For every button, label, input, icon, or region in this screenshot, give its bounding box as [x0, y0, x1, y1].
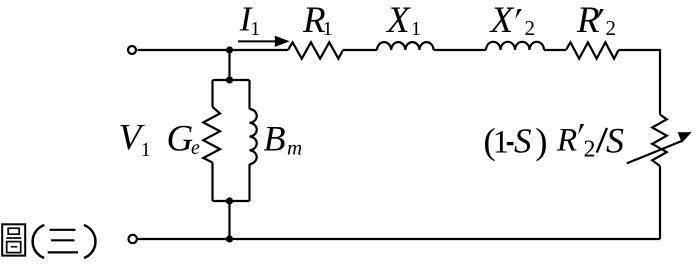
label I1: [239, 0, 260, 40]
svg-text:B: B: [264, 119, 286, 159]
resistor Ge: [203, 107, 220, 163]
wire shunt bottom stub: [228, 201, 230, 239]
wire R2' to top right corner and down: [619, 50, 661, 115]
wire left rail lower: [211, 163, 213, 202]
svg-text:1: 1: [493, 125, 510, 161]
caption open paren: [33, 225, 45, 258]
svg-text:2: 2: [584, 137, 596, 163]
caption close paren: [84, 225, 95, 258]
svg-text:): ): [535, 122, 547, 163]
inductor X2': [486, 42, 544, 50]
svg-text:G: G: [167, 119, 194, 160]
resistor R1: [288, 42, 343, 58]
wire left rail upper: [211, 80, 213, 107]
svg-text:2: 2: [525, 16, 536, 40]
terminal T1 (top left): [128, 46, 136, 54]
label (1-S)R2'/S: [483, 121, 624, 163]
svg-text:X: X: [385, 0, 411, 41]
label V1: [119, 118, 151, 161]
wire right rail upper: [248, 80, 250, 109]
node A (top junction): [226, 46, 233, 53]
svg-text:m: m: [287, 135, 302, 159]
node B (bottom junction): [226, 235, 233, 242]
label Ge: [167, 119, 201, 160]
wire bottom from corner to T2: [138, 238, 660, 240]
wire R1 to X1: [343, 49, 377, 51]
label X1: [385, 0, 421, 41]
svg-text:R: R: [556, 123, 577, 159]
label R2': [576, 0, 616, 41]
caption glyph 三: [48, 230, 78, 253]
wire top from T1 to R1: [138, 49, 289, 51]
svg-text:e: e: [191, 137, 200, 159]
caption glyph 圖: [2, 224, 25, 255]
svg-text:S: S: [606, 121, 624, 161]
inductor X1: [377, 42, 434, 50]
variable resistor RL zigzag: [652, 115, 667, 167]
svg-text:R: R: [576, 0, 600, 41]
wire X1 to X2': [434, 49, 486, 51]
svg-text:1: 1: [411, 18, 421, 40]
wire right rail lower: [248, 164, 250, 201]
terminal T2 (bottom left): [129, 235, 137, 243]
wire X2' to R2': [544, 49, 566, 51]
resistor R2': [566, 42, 619, 58]
node D (shunt bottom): [226, 197, 233, 204]
wire shunt box bottom: [213, 200, 250, 202]
current arrow I1: [238, 36, 290, 47]
label Bm: [264, 119, 303, 160]
wire right side below RL to bottom corner: [659, 166, 661, 239]
variable resistor arrow: [627, 132, 692, 163]
wire shunt top stub: [228, 50, 230, 80]
svg-text:S: S: [514, 122, 532, 161]
label R1: [302, 0, 333, 41]
node C (shunt top): [226, 76, 233, 83]
label X2': [489, 0, 536, 41]
svg-text:1: 1: [250, 18, 260, 40]
svg-text:X: X: [489, 0, 515, 41]
inductor Bm: [250, 109, 257, 164]
svg-text:2: 2: [606, 16, 617, 40]
svg-text:1: 1: [141, 139, 151, 161]
wire shunt box top: [213, 79, 250, 81]
svg-text:1: 1: [323, 18, 333, 40]
